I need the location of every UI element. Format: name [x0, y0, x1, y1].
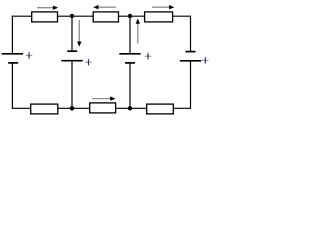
- battery V2 short plate: [67, 50, 77, 52]
- battery V2 plus label: [85, 59, 92, 66]
- battery V4 short plate: [186, 51, 196, 53]
- resistor R5: [90, 103, 116, 113]
- wire right rail lower: [190, 61, 192, 109]
- current arrow beside branch2 pointing up: [136, 19, 140, 44]
- node D junction dot: [128, 106, 132, 110]
- node B junction dot: [128, 14, 132, 18]
- node C junction dot: [70, 106, 74, 110]
- wire right rail upper: [190, 16, 192, 52]
- wire bottom-left horizontal: [12, 107, 31, 109]
- current arrow over R3 pointing right: [152, 5, 174, 9]
- wire top-right horizontal: [173, 15, 191, 17]
- battery V1 long plate: [2, 53, 23, 55]
- wire branch2 lower: [129, 63, 131, 108]
- wire left rail lower: [11, 63, 13, 109]
- resistor R3: [145, 12, 173, 22]
- resistor R1: [32, 12, 58, 22]
- wire bottom between R4 and R5 through node C: [58, 107, 90, 109]
- resistor R6: [147, 104, 174, 114]
- resistor R2: [93, 12, 118, 22]
- battery V4 plus label: [202, 57, 209, 64]
- wire branch1 lower: [71, 61, 73, 109]
- wire top between R1 and R2 through node A: [58, 15, 94, 17]
- current arrow over R5 pointing right: [92, 96, 115, 100]
- wire bottom-right horizontal: [173, 107, 191, 109]
- battery V3 long plate: [119, 53, 140, 55]
- battery V4 long plate: [180, 60, 201, 62]
- wire left rail upper: [11, 16, 13, 54]
- wire top between R2 and R3 through node B: [119, 15, 146, 17]
- battery V2 long plate: [61, 60, 82, 62]
- wire top-left horizontal: [12, 15, 32, 17]
- current arrow beside branch1 pointing down: [77, 20, 81, 47]
- current arrow over R2 pointing left: [93, 5, 116, 9]
- resistor R4: [31, 104, 58, 114]
- wire branch2 upper: [129, 16, 131, 54]
- wire bottom between R5 and R6 through node D: [116, 107, 148, 109]
- battery V3 short plate: [125, 62, 135, 64]
- wire branch1 upper: [71, 16, 73, 51]
- battery V1 plus label: [26, 52, 33, 59]
- current arrow over R1 pointing right: [37, 6, 58, 10]
- node A junction dot: [70, 14, 74, 18]
- battery V1 short plate: [8, 62, 18, 64]
- battery V3 plus label: [145, 53, 152, 60]
